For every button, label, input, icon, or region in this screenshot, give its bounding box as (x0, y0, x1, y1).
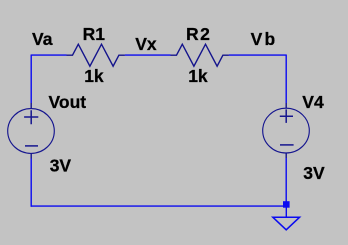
ground symbol (273, 217, 300, 230)
svg-text:Va: Va (32, 29, 53, 49)
svg-text:3V: 3V (303, 163, 325, 183)
V4 minus sign (280, 144, 294, 146)
voltage source Vout lead stubs (30, 103, 32, 159)
svg-text:Vb: Vb (251, 29, 278, 49)
wire top-right segment (R2 to Vb corner) (229, 54, 286, 56)
svg-text:V4: V4 (302, 92, 324, 112)
ground stem wire (285, 208, 287, 218)
svg-text:Vx: Vx (135, 34, 157, 54)
wire top-left segment (Va node to R1) (31, 54, 66, 56)
wire left vertical upper (Va corner down to Vout) (30, 55, 32, 104)
resistor R1 (67, 44, 125, 66)
junction square node (283, 201, 290, 208)
wire bottom rail (31, 205, 284, 207)
wire left vertical lower (Vout to bottom rail) (30, 159, 32, 207)
V4 plus sign (280, 109, 293, 123)
resistor R2 (171, 44, 229, 66)
svg-text:R2: R2 (186, 24, 211, 44)
Vout plus sign (24, 110, 38, 124)
wire Vx segment (R1 to R2) (125, 54, 171, 56)
svg-text:3V: 3V (50, 155, 72, 175)
svg-text:1k: 1k (84, 66, 104, 86)
voltage source V4 circle (263, 108, 310, 153)
svg-text:1k: 1k (188, 66, 208, 86)
wire right vertical lower (V4 to ground junction) (285, 158, 287, 202)
Vout minus sign (25, 145, 38, 147)
svg-text:R1: R1 (83, 24, 106, 44)
wire right vertical upper (Vb corner down to V4) (285, 55, 287, 104)
voltage source Vout circle (8, 109, 55, 154)
voltage source V4 lead stubs (285, 103, 287, 158)
svg-text:Vout: Vout (49, 92, 87, 112)
